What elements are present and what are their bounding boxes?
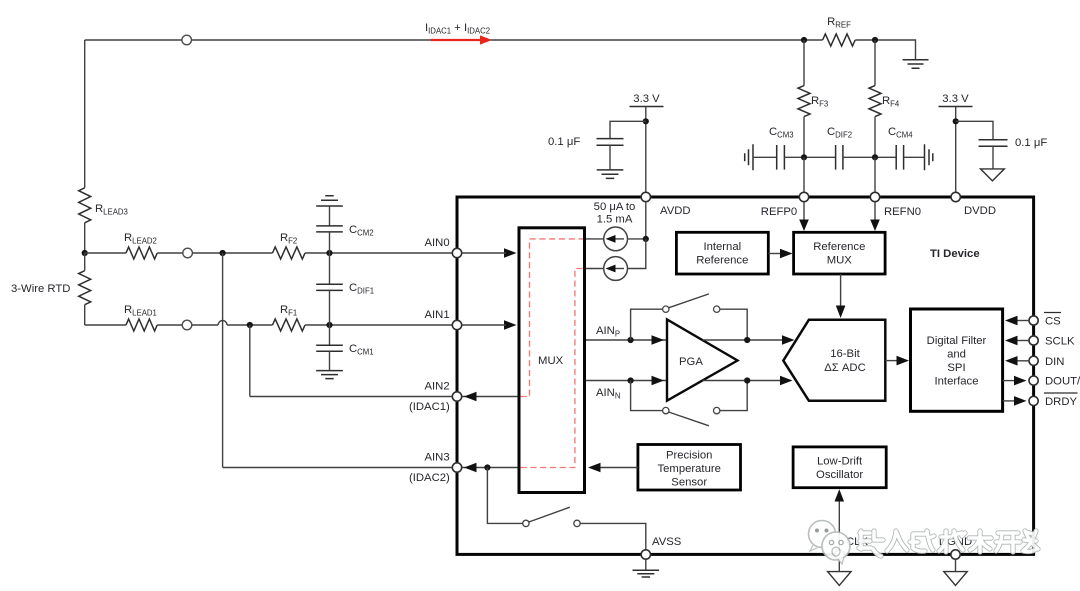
resistor RTD (3-Wire RTD) bbox=[79, 271, 91, 305]
TI device box bbox=[457, 197, 1034, 554]
watermark logo bubble 1 bbox=[809, 521, 836, 552]
pin SCLK bbox=[1029, 336, 1038, 345]
ground AVDD bypass bbox=[597, 170, 624, 179]
wire REFN0 node to pin bbox=[874, 157, 876, 192]
open connector on AIN0 row bbox=[183, 248, 193, 258]
capacitor CCM2 bbox=[329, 206, 331, 226]
switch to AVSS (pole) bbox=[523, 520, 529, 526]
junction node REFN0 caps bbox=[872, 154, 878, 160]
svg-text:3.3 V: 3.3 V bbox=[942, 93, 969, 105]
pin AVSS bbox=[641, 550, 650, 559]
svg-text:DRDY: DRDY bbox=[1045, 396, 1077, 408]
svg-text:DIN: DIN bbox=[1045, 356, 1064, 368]
wire ground to CCM3 bbox=[753, 156, 777, 158]
wire to bypass cap bbox=[956, 121, 993, 140]
svg-text:0.1 μF: 0.1 μF bbox=[1015, 137, 1047, 149]
resistor RF2 bbox=[273, 247, 306, 259]
junction node AIN1 row / AIN2 drop bbox=[247, 322, 253, 328]
svg-text:3-Wire RTD: 3-Wire RTD bbox=[11, 283, 70, 295]
wire top rail to RREF node bbox=[192, 39, 823, 41]
wire AIN1 pin to MUX bbox=[462, 324, 506, 326]
wire AVDD pin down to IDAC feed bbox=[645, 202, 647, 239]
ground below CCM1 bbox=[316, 371, 343, 379]
svg-text:Internal: Internal bbox=[703, 241, 741, 253]
wire CCM3 to REFP0 node bbox=[784, 156, 835, 158]
resistor RREF bbox=[823, 34, 856, 46]
pin REFN0 bbox=[870, 192, 879, 201]
pin AIN2 (IDAC1) bbox=[452, 392, 461, 401]
watermark text (stylized CJK strokes) bbox=[859, 531, 1038, 556]
svg-text:REFP0: REFP0 bbox=[761, 206, 797, 218]
ground (inverted) above CCM2 bbox=[316, 196, 343, 206]
wire CCM4 to right ground bbox=[904, 156, 925, 158]
junction node REFP0 caps bbox=[801, 154, 807, 160]
pin DGND bbox=[951, 550, 960, 559]
svg-text:Sensor: Sensor bbox=[671, 477, 707, 489]
svg-text:(IDAC2): (IDAC2) bbox=[409, 472, 450, 484]
svg-text:CS: CS bbox=[1045, 316, 1061, 328]
arrowhead AIN0 into MUX bbox=[504, 248, 517, 258]
wire ADC to digital filter bbox=[885, 360, 899, 362]
mux U-MUX box bbox=[519, 228, 585, 493]
node open connector on top rail bbox=[182, 35, 192, 45]
current source IDAC1 bbox=[586, 238, 646, 240]
svg-text:50 μA to: 50 μA to bbox=[594, 201, 636, 213]
wire AINN (MUX to PGA) bbox=[586, 380, 667, 382]
arrowhead AINP into PGA bbox=[652, 335, 665, 345]
capacitor CCM3 bbox=[777, 145, 785, 170]
watermark logo bubble 2 bbox=[822, 532, 850, 564]
wire 3.3V down to DVDD pin bbox=[955, 107, 957, 193]
wire RLEAD1 to connector bbox=[157, 324, 182, 326]
wire AIN3 branch down to switch bbox=[487, 468, 522, 524]
wire REFP0 node to pin bbox=[803, 157, 805, 192]
pin AVDD bbox=[641, 192, 650, 201]
wire REFP0 pin to Reference MUX bbox=[803, 202, 805, 222]
op-amp PGA bbox=[667, 320, 738, 401]
wire AIN2 drop (x=249.8) bbox=[249, 325, 251, 397]
resistor RLEAD2 bbox=[85, 252, 126, 254]
svg-text:DOUT/DRDY: DOUT/DRDY bbox=[1045, 376, 1080, 388]
block Internal Reference bbox=[676, 232, 768, 274]
svg-text:Low-Drift: Low-Drift bbox=[817, 456, 863, 468]
wire switch to AVSS pin bbox=[580, 523, 646, 549]
wire connector to crossover hop bbox=[192, 324, 218, 326]
resistor RF1 bbox=[273, 319, 306, 331]
wire AIN2 row bbox=[250, 396, 518, 398]
pin AIN0 bbox=[452, 248, 461, 257]
arrowhead AIN3 (out of pin) bbox=[464, 463, 477, 473]
wire hop to RF1 bbox=[227, 324, 272, 326]
ground triangle DGND bbox=[955, 559, 957, 571]
resistor RLEAD1 bbox=[85, 324, 126, 326]
svg-text:ΔΣ ADC: ΔΣ ADC bbox=[824, 362, 866, 374]
arrowhead AIN1 into MUX bbox=[504, 320, 517, 330]
capacitor 0.1 uF (AVDD bypass) bbox=[597, 139, 624, 146]
svg-text:MUX: MUX bbox=[538, 355, 564, 367]
svg-text:1.5 mA: 1.5 mA bbox=[597, 214, 633, 226]
wire to bypass cap bbox=[610, 121, 646, 138]
capacitor CDIF2 bbox=[836, 145, 843, 170]
junction node RLEAD3/RLEAD2/RTD bbox=[82, 250, 88, 256]
wire IDAC feed down to IDAC2 bbox=[628, 239, 646, 269]
svg-text:AIN2: AIN2 bbox=[425, 381, 450, 393]
wire RF1 to AIN1 pin bbox=[305, 324, 452, 326]
junction node AVDD bypass bbox=[643, 118, 649, 124]
wire connector to RF2 bbox=[192, 252, 272, 254]
wire AIN3 drop (x=222.6) bbox=[222, 253, 224, 468]
ground (sideways) left of CCM3 bbox=[745, 144, 753, 170]
open connector on AIN1 row bbox=[182, 320, 192, 330]
ground triangle DVDD bypass bbox=[981, 169, 1005, 181]
svg-text:(IDAC1): (IDAC1) bbox=[409, 401, 450, 413]
svg-text:Digital Filter: Digital Filter bbox=[927, 335, 987, 347]
mux internal IDAC1 route (red dashed) bbox=[521, 239, 584, 397]
junction node cap column on AIN1 row bbox=[326, 322, 332, 328]
capacitor CCM1 bbox=[329, 325, 331, 345]
wire REFN0 pin to Reference MUX bbox=[874, 202, 876, 222]
block Precision Temperature Sensor bbox=[638, 445, 741, 491]
wire temp sensor to MUX bbox=[598, 467, 638, 469]
svg-text:Interface: Interface bbox=[935, 376, 979, 388]
ground AVSS bbox=[645, 559, 647, 570]
svg-text:Reference: Reference bbox=[813, 241, 865, 253]
svg-text:PGA: PGA bbox=[679, 356, 703, 368]
svg-text:REFN0: REFN0 bbox=[884, 206, 921, 218]
ground triangle CLK bbox=[838, 559, 840, 571]
chopper switch top bbox=[631, 309, 663, 340]
wire Reference MUX to ADC bbox=[840, 274, 842, 308]
wire AIN0 pin to MUX bbox=[462, 252, 506, 254]
resistor RF4 bbox=[874, 40, 876, 86]
svg-text:AIN0: AIN0 bbox=[425, 237, 450, 249]
svg-text:MUX: MUX bbox=[827, 255, 853, 267]
block Digital Filter and SPI Interface bbox=[911, 309, 1003, 411]
wire RREF right to ground bbox=[855, 40, 915, 60]
wire PGA output bottom to ADC bbox=[703, 380, 784, 382]
svg-text:DVDD: DVDD bbox=[964, 205, 996, 217]
svg-text:16-Bit: 16-Bit bbox=[830, 348, 860, 360]
pin CS bbox=[1029, 316, 1038, 325]
capacitor 0.1 uF (DVDD bypass) bbox=[979, 140, 1008, 146]
junction node IDAC feed bbox=[643, 236, 649, 242]
current source IDAC2 bbox=[586, 268, 604, 270]
svg-text:Reference: Reference bbox=[696, 255, 748, 267]
svg-text:AIN1: AIN1 bbox=[425, 309, 450, 321]
junction node AIN3/AVSS switch bbox=[484, 464, 490, 470]
pin DIN bbox=[1029, 356, 1038, 365]
pin DRDY bbox=[1029, 396, 1038, 405]
mux internal IDAC2 route (red dashed) bbox=[521, 269, 584, 468]
arrowhead AINN into PGA bbox=[652, 376, 665, 386]
svg-text:and: and bbox=[947, 349, 966, 361]
svg-text:AVDD: AVDD bbox=[660, 205, 691, 217]
resistor RF3 bbox=[803, 40, 805, 86]
svg-text:Precision: Precision bbox=[666, 450, 712, 462]
junction node AIN0 row / AIN3 drop bbox=[220, 250, 226, 256]
svg-text:Temperature: Temperature bbox=[657, 463, 720, 475]
junction node DVDD bypass bbox=[953, 118, 959, 124]
svg-text:TI Device: TI Device bbox=[930, 248, 980, 260]
arrowhead AIN2 (out of pin) bbox=[464, 392, 477, 402]
wire RF2 to AIN0 pin bbox=[305, 252, 452, 254]
junction node cap column on AIN0 row bbox=[326, 250, 332, 256]
ground at RREF right bbox=[903, 60, 929, 68]
svg-text:0.1 μF: 0.1 μF bbox=[548, 136, 580, 148]
pin CLK bbox=[835, 550, 844, 559]
adc 16-bit delta-sigma bbox=[783, 320, 885, 401]
wire RLEAD3 to AIN0 row node bbox=[84, 223, 86, 253]
capacitor CCM4 bbox=[896, 145, 903, 170]
svg-text:AIN3: AIN3 bbox=[425, 452, 450, 464]
svg-text:3.3 V: 3.3 V bbox=[633, 93, 660, 105]
block Low-Drift Oscillator bbox=[793, 447, 886, 488]
wire top-left vertical from top rail down to RLEAD3 bbox=[84, 40, 86, 188]
junction node AINN chopper tap bbox=[628, 377, 634, 383]
wire 3.3V down to AVDD pin bbox=[645, 107, 647, 193]
wire Internal Reference to Reference MUX bbox=[768, 253, 783, 255]
wire AIN3 row bbox=[223, 467, 518, 469]
pin AIN3 (IDAC2) bbox=[452, 463, 461, 472]
capacitor CDIF1 bbox=[329, 253, 331, 284]
wire top rail left segment bbox=[85, 39, 182, 41]
wire RLEAD2 to connector bbox=[157, 252, 183, 254]
ground (sideways) right of CCM4 bbox=[925, 144, 933, 170]
wire CDIF2 to REFN0 node bbox=[843, 156, 896, 158]
pin REFP0 bbox=[799, 192, 808, 201]
junction node RREF right / RF4 top bbox=[872, 37, 878, 43]
junction node RREF left / RF3 top bbox=[801, 37, 807, 43]
chopper switch bottom bbox=[631, 381, 663, 411]
pin AIN1 bbox=[452, 320, 461, 329]
current arrow IDAC1+IDAC2 (red) bbox=[431, 39, 482, 41]
wire AINP (MUX to PGA) bbox=[586, 339, 667, 341]
pin DVDD bbox=[951, 192, 960, 201]
svg-text:Oscillator: Oscillator bbox=[816, 469, 863, 481]
crossover hop over AIN3 drop wire bbox=[218, 321, 227, 326]
pin DOUT/DRDY bbox=[1029, 376, 1038, 385]
resistor RLEAD3 bbox=[79, 188, 91, 223]
junction node AINP chopper tap bbox=[628, 337, 634, 343]
wire CLK pin to oscillator bbox=[838, 496, 840, 552]
block Reference MUX bbox=[794, 232, 886, 274]
svg-text:SPI: SPI bbox=[947, 362, 965, 374]
svg-text:SCLK: SCLK bbox=[1045, 336, 1075, 348]
wire PGA output top to ADC bbox=[703, 339, 784, 341]
svg-text:AVSS: AVSS bbox=[652, 536, 682, 548]
